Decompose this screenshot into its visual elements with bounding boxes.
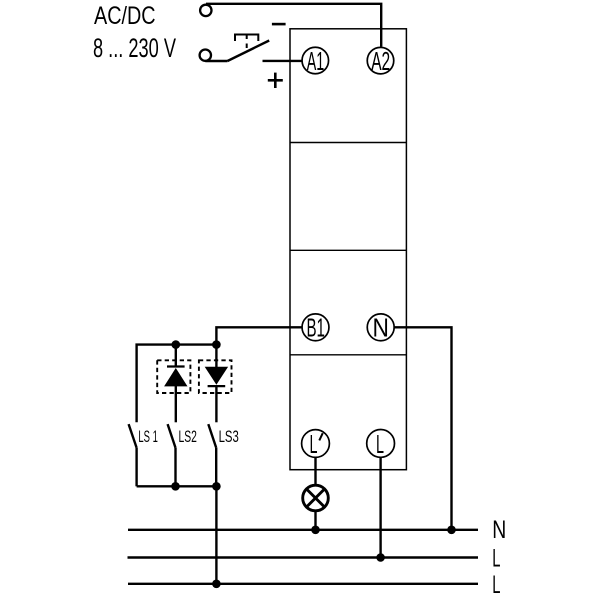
wire L' to lamp <box>314 457 316 486</box>
block divider 3 <box>290 354 406 356</box>
terminal N <box>367 314 394 341</box>
lamp E1 <box>303 485 329 511</box>
pushbutton actuator dashed link <box>246 35 248 51</box>
svg-text:B1: B1 <box>306 313 325 343</box>
junction bus LS3 <box>212 340 221 349</box>
diode D2 cathode bar <box>208 385 226 387</box>
device block outline <box>290 29 406 470</box>
wire LS3 top <box>215 345 217 368</box>
diode D2 dashed box <box>199 360 232 393</box>
switch bus bottom <box>137 485 217 487</box>
wire bus to mains L2 <box>215 486 217 584</box>
mains line L2 <box>128 583 478 585</box>
polarity plus <box>268 73 283 88</box>
wire supply top to A2 <box>206 4 381 47</box>
wire LS3 mid <box>215 386 217 422</box>
polarity minus <box>272 23 286 26</box>
svg-text:L: L <box>310 429 318 459</box>
switch LS2 blade <box>168 424 176 448</box>
junction bus bottom LS3 <box>212 482 221 491</box>
junction N wire on N <box>447 526 456 535</box>
svg-text:LS 1: LS 1 <box>138 428 158 446</box>
svg-text:A1: A1 <box>307 46 325 76</box>
terminal A1 <box>302 47 329 74</box>
svg-text:A2: A2 <box>371 46 390 76</box>
svg-text:8 ... 230 V: 8 ... 230 V <box>93 33 176 63</box>
wire LS2 mid <box>175 386 177 422</box>
svg-text:L: L <box>492 571 500 599</box>
svg-text:LS2: LS2 <box>179 428 197 446</box>
switch LS3 blade <box>208 424 216 448</box>
svg-text:L: L <box>376 429 384 459</box>
wire B1 to switch bus <box>216 327 301 344</box>
diode D1 cathode bar <box>167 365 185 367</box>
terminal L' <box>302 430 330 458</box>
diode D2 triangle <box>206 367 228 384</box>
mains line N <box>128 529 478 531</box>
wire LS1 bottom <box>135 448 137 487</box>
switch LS1 blade <box>129 424 137 448</box>
pushbutton blade S1 <box>228 41 270 62</box>
diode D1 triangle <box>165 369 187 386</box>
svg-text:AC/DC: AC/DC <box>94 2 156 30</box>
junction bus bottom LS2 <box>171 482 180 491</box>
block divider 2 <box>290 249 406 251</box>
wire LS2 bottom <box>174 448 176 487</box>
wire N to mains N <box>394 327 451 530</box>
switch bus top <box>137 345 217 423</box>
wire switch to A1 <box>263 60 302 62</box>
svg-text:L: L <box>492 545 500 573</box>
svg-text:LS3: LS3 <box>219 428 239 446</box>
terminal B1 <box>302 314 329 341</box>
diode D1 dashed box <box>157 360 190 393</box>
terminal L <box>367 430 395 458</box>
terminal A2 <box>367 47 394 74</box>
svg-text:N: N <box>373 313 389 343</box>
junction bus wire on L2 <box>212 580 221 589</box>
supply terminal top <box>200 5 211 16</box>
block divider 1 <box>290 142 406 144</box>
junction bus LS2 <box>172 340 181 349</box>
supply terminal bottom <box>200 50 211 61</box>
wire switch common <box>205 60 227 62</box>
wire L to mains L1 <box>379 457 381 558</box>
pushbutton actuator bracket <box>235 35 258 42</box>
junction L wire on L1 <box>376 553 385 562</box>
wire LS3 bottom <box>215 448 217 487</box>
junction lamp on N <box>311 526 320 535</box>
wire lamp to mains N <box>314 511 316 530</box>
mains line L1 <box>128 556 479 558</box>
wire LS2 top <box>175 345 177 367</box>
svg-text:N: N <box>492 516 506 544</box>
